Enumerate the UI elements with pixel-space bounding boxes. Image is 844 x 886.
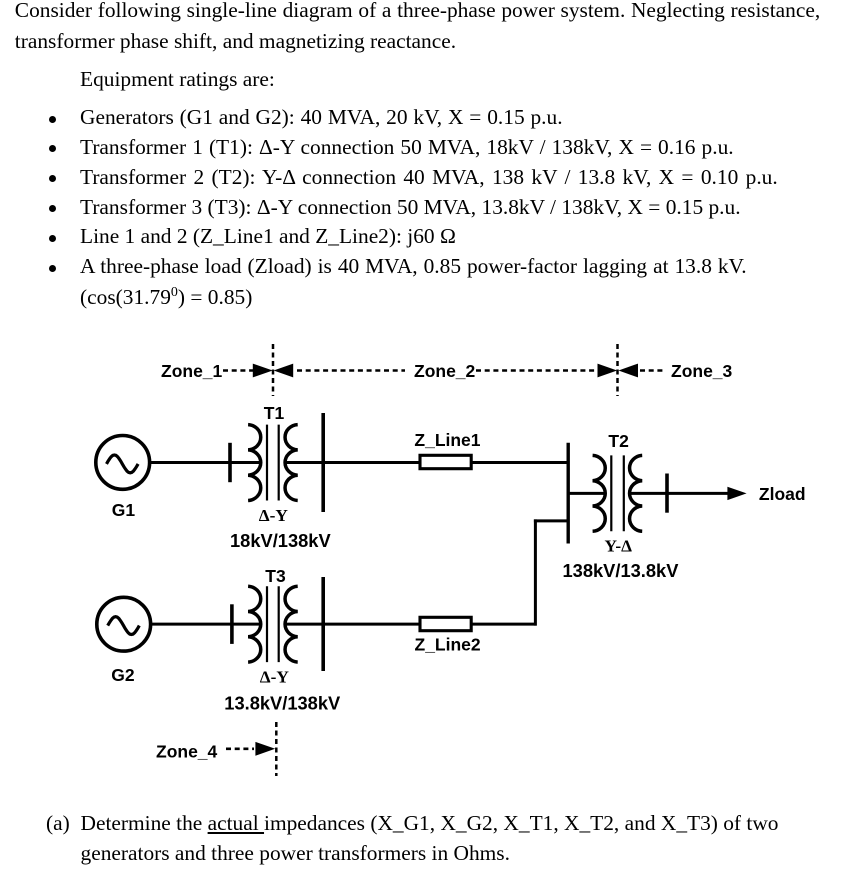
- svg-text:Zone_1: Zone_1: [161, 361, 223, 381]
- bullet 3: [49, 175, 56, 182]
- bus tick right of T2: [665, 474, 669, 513]
- svg-text:Zone_4: Zone_4: [156, 742, 218, 762]
- wire T2 bus to T2: [568, 492, 606, 495]
- zone boundary dashed line 4: [275, 722, 278, 776]
- svg-text:Zone_2: Zone_2: [414, 361, 476, 381]
- bus line right of T3: [321, 577, 325, 671]
- svg-text:Y-Δ: Y-Δ: [605, 537, 633, 556]
- svg-text:Δ-Y: Δ-Y: [260, 668, 290, 687]
- wire G2 to T3: [151, 623, 262, 626]
- svg-text:Zone_3: Zone_3: [671, 361, 733, 381]
- transformer T3 core lines: [266, 586, 268, 662]
- transformer T3 right winding: [285, 586, 298, 662]
- question (a) line 1: [46, 813, 70, 834]
- wire corner vertical up: [534, 519, 537, 625]
- bullet 1: [49, 116, 56, 123]
- wire G1 to T1: [150, 461, 262, 464]
- svg-text:138kV/13.8kV: 138kV/13.8kV: [563, 560, 680, 581]
- zone boundary dashed line 1: [272, 344, 275, 396]
- svg-text:T3: T3: [265, 566, 286, 586]
- paragraph line 1: [15, 0, 820, 21]
- bullet 4: [49, 205, 56, 212]
- generator G1 sine wave: [107, 455, 139, 473]
- generator G2 circle: [97, 597, 151, 651]
- svg-text:18kV/138kV: 18kV/138kV: [230, 530, 331, 551]
- bus tick near G1: [228, 443, 232, 482]
- transformer T1 core lines: [266, 425, 268, 501]
- transformer T2 left winding: [593, 455, 606, 531]
- zone_2 right dashed line: [476, 369, 598, 372]
- zone_3 arrowhead left: [619, 364, 639, 378]
- wire corner to T2 bus: [534, 519, 568, 522]
- zone_2 left dashed line: [297, 369, 405, 372]
- load arrowhead: [727, 487, 746, 500]
- svg-text:Z_Line1: Z_Line1: [414, 430, 480, 450]
- svg-text:13.8kV/138kV: 13.8kV/138kV: [224, 693, 341, 714]
- zone boundary dashed line 2: [616, 344, 619, 396]
- bullet 5: [49, 235, 56, 242]
- zone_4 arrowhead right: [255, 742, 275, 756]
- heading: [80, 69, 275, 90]
- bus line left of T2: [567, 443, 570, 544]
- wire T1 to Z_Line1: [284, 461, 420, 464]
- zone_4 dashed arrow line: [226, 747, 254, 750]
- svg-text:G2: G2: [111, 665, 135, 685]
- svg-text:Z_Line2: Z_Line2: [415, 635, 481, 655]
- paragraph line 2: [15, 31, 456, 52]
- question (a) line 2: [81, 843, 510, 864]
- transformer T1 left winding: [248, 425, 261, 501]
- svg-text:Δ-Y: Δ-Y: [259, 506, 289, 525]
- zone_2 arrowhead left: [274, 364, 294, 378]
- wire Z_Line2 to corner: [471, 623, 536, 626]
- svg-text:Zload: Zload: [759, 484, 806, 504]
- impedance Z_Line2 rectangle: [420, 617, 471, 630]
- wire T2 to load arrow: [629, 492, 732, 495]
- generator G1 circle: [96, 436, 150, 490]
- transformer T2 right winding: [630, 455, 643, 531]
- transformer T2 core lines: [610, 455, 612, 531]
- bullet 2: [49, 145, 56, 152]
- svg-text:G1: G1: [112, 500, 136, 520]
- bus tick near G2: [230, 604, 234, 644]
- zone_1 arrowhead right: [253, 364, 273, 378]
- bullet 6: [49, 265, 56, 272]
- zone_3 dashed line: [640, 369, 663, 372]
- zone_2 arrowhead right: [598, 364, 618, 378]
- wire Z_Line1 to T2 bus: [471, 461, 568, 464]
- transformer T1 right winding: [285, 425, 298, 501]
- bullet 6 continuation: [80, 286, 252, 309]
- wire T3 to Z_Line2: [284, 623, 420, 626]
- zone_1 dashed arrow line: [223, 369, 254, 372]
- bus line right of T1: [321, 413, 325, 512]
- generator G2 sine wave: [108, 617, 140, 635]
- svg-text:T2: T2: [608, 431, 629, 451]
- impedance Z_Line1 rectangle: [420, 455, 471, 468]
- transformer T3 left winding: [248, 586, 261, 662]
- svg-text:T1: T1: [264, 403, 285, 423]
